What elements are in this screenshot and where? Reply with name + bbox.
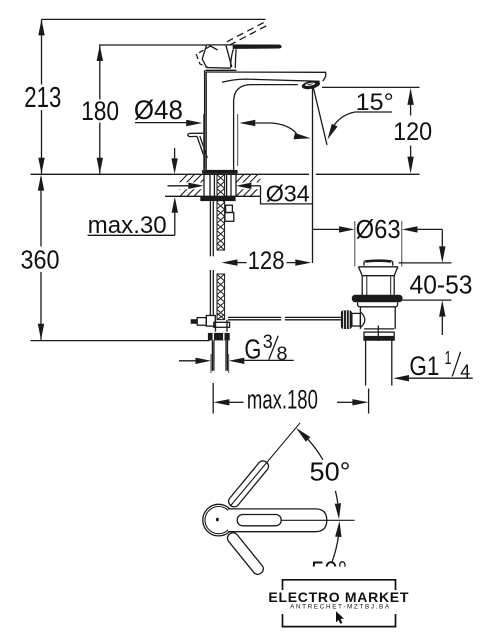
dimension 40-53 upper arrow (down) [439,246,445,263]
faucet body top line upper [206,69,237,71]
svg-text:Ø63: Ø63 [356,214,401,244]
dimension 360 vertical line [40,177,42,247]
max.30 upper arrow (points down at counter top) [174,148,176,159]
dimension 213 vertical line [41,19,43,84]
max.180 left arrow [213,399,229,405]
Ø34 label box [261,186,313,204]
watermark box bottom [283,614,396,627]
faucet handle raised position dashed line 2 [230,25,268,45]
G3/8 dimension left arrow [179,360,196,362]
dimension Ø48 extension line right [237,114,239,166]
G3/8 extension ticks [210,354,212,373]
G3/8 leader underline [244,359,293,361]
dimension Ø63 extension line right [401,221,403,267]
50 deg upper arc segment 2 with arrow [335,491,337,503]
svg-text:1: 1 [445,348,452,368]
dimension 213 bottom arrow [38,158,44,174]
waste rubber seal ring [352,295,403,302]
supply hose connection nut [208,333,230,341]
horizontal pop-up actuating rod [228,316,281,318]
svg-text:ANTRECHET-MZTBJ.BA: ANTRECHET-MZTBJ.BA [290,604,390,611]
dimension 128 right arrow [287,262,296,264]
watermark box top [283,580,396,590]
top view lever (center position) [228,509,327,532]
dimension 360 bottom arrow [38,324,44,340]
waste center tick [377,326,379,342]
hose-end reference line (360 bottom) [31,340,210,342]
svg-text:4: 4 [460,362,470,382]
dimension 120 bottom arrow [407,157,413,174]
dimension Ø63 left arrow [313,228,340,230]
svg-text:213: 213 [24,82,61,114]
max.30 lower arrow (points up at counter bottom) [172,197,178,213]
15 deg leader arc with arrow [334,112,356,126]
top view tiny logo mark [216,518,219,521]
waste tail pipe [365,340,367,385]
countertop top surface line [31,173,310,175]
dimension Ø63 extension line left [354,221,356,267]
dimension Ø48 leader underline and left arrow [135,122,188,124]
faucet body right edge and spout underside [234,85,298,170]
pop-up pull rod knob behind body [188,133,205,136]
svg-text:360: 360 [21,245,60,275]
spout front under edge [222,79,320,82]
G1 1/4 fraction slash [452,352,460,377]
shank tube walls through counter [209,174,211,196]
waste body flange [358,266,398,268]
dimension 360 top arrow [38,175,44,191]
40-53 upper reference line [399,262,452,264]
dimension 120 top reference line (aerator level) [322,86,420,88]
15 deg leader underline [355,111,392,113]
handle base outline [202,45,230,68]
50 deg lower arc with arrow [335,521,341,537]
pull rod guide bracket [226,205,233,212]
svg-text:50°: 50° [310,456,351,486]
pull rod lower section [209,270,211,316]
dimension 180 bottom arrow [97,158,103,174]
waste side knob (knurled) [341,310,352,329]
dimension 120 vertical line [410,105,412,116]
dimension Ø48 right arrow [239,120,255,126]
svg-text:120: 120 [393,118,432,146]
dimension Ø63 right arrow [402,226,418,232]
svg-text:G: G [244,334,261,365]
shank lower fitting [216,320,228,332]
aerator [301,79,321,90]
dimension 40-53 vertical line upper [441,229,443,247]
svg-text:15°: 15° [356,89,394,116]
svg-text:180: 180 [81,96,119,126]
G1 1/4 dimension arrow [393,375,409,381]
max.180 right extension line [368,389,370,414]
dimension 213 top arrow [38,19,44,35]
aerator vertical extension line [312,87,314,263]
top view faucet body circle inner [205,506,232,533]
svg-text:128: 128 [248,247,285,275]
handle base top edge [207,44,233,46]
countertop hatching right [236,174,260,196]
svg-text:8: 8 [277,344,288,365]
dimension 40-53 lower arrow (up) [439,300,445,317]
mounting hole edge left [203,174,205,196]
waste body upper section [361,276,363,295]
mouse cursor [336,611,344,624]
water stream line (15 deg) [313,87,327,145]
top view faucet body circle outer [203,504,235,536]
faucet body left edge (double) [204,70,206,170]
faucet body / spout top line [206,72,326,81]
svg-text:3: 3 [263,332,273,353]
waste body below seal [358,302,398,306]
waste knob stem [352,313,361,326]
top view rotated lever stub lower [225,531,265,577]
50 deg ray line [230,423,300,507]
dimension Ø48 extension line left [203,114,205,172]
faucet handle raised base dashed outline [196,46,210,68]
countertop hatching left [180,174,204,196]
countertop bottom surface line [165,195,261,197]
waste plug cap [364,261,393,266]
dimension Ø34 left arrow and line [168,185,190,187]
handle base inner diagonal [226,45,232,67]
top view rotated lever stub upper [227,459,271,509]
braided supply hose upper section (cross-hatched) [217,174,225,250]
mounting hole edge right [235,174,237,196]
waste ball joint arc [360,312,364,328]
max.180 left extension line [212,383,214,414]
supply hose tail pipe [211,340,213,370]
svg-text:40-53: 40-53 [410,270,473,300]
pull rod lower end fitting [206,316,215,327]
50 deg upper arc segment 1 with arrow [308,439,323,459]
G3/8 dimension right arrow [229,358,245,364]
svg-text:max.30: max.30 [88,212,167,239]
handle base small diagonal [209,45,217,50]
svg-text:max.180: max.180 [247,384,318,414]
dimension 128 left arrow [222,259,238,265]
handle neck right edge [234,49,237,68]
handle neck left edge [231,49,234,68]
max.30 leader underline [88,234,175,236]
max.180 right arrow [337,401,353,403]
40-53 lower reference line [402,299,451,301]
mounting nut under counter [200,197,235,202]
dimension 120 top arrow [407,88,413,105]
spout-top reference line (180 level) [99,44,207,46]
braided supply hose lower section (cross-hatched) [217,274,225,320]
dimension 180 top arrow [97,45,103,61]
svg-text:ELECTRO MARKET: ELECTRO MARKET [268,589,408,605]
svg-text:G1: G1 [409,351,439,381]
dimension 180 vertical line [99,45,101,100]
watermark white background [300,567,405,636]
faucet base plate [202,170,238,174]
G3/8 fraction slash [269,336,278,360]
pull rod upper section [209,201,211,256]
top reference line (handle top level) [42,18,266,20]
top view lever inner slot [237,515,281,526]
dimension Ø34 right arrow and line [236,183,252,189]
faucet handle raised position dashed line 1 [227,22,265,42]
handle lever bar (dark) [233,44,282,49]
svg-text:Ø48: Ø48 [134,95,183,125]
svg-text:Ø34: Ø34 [266,180,310,206]
top view centerline [281,519,354,521]
angle swing arc to vertical line [272,123,297,134]
waste bottom compression rings [364,328,394,330]
